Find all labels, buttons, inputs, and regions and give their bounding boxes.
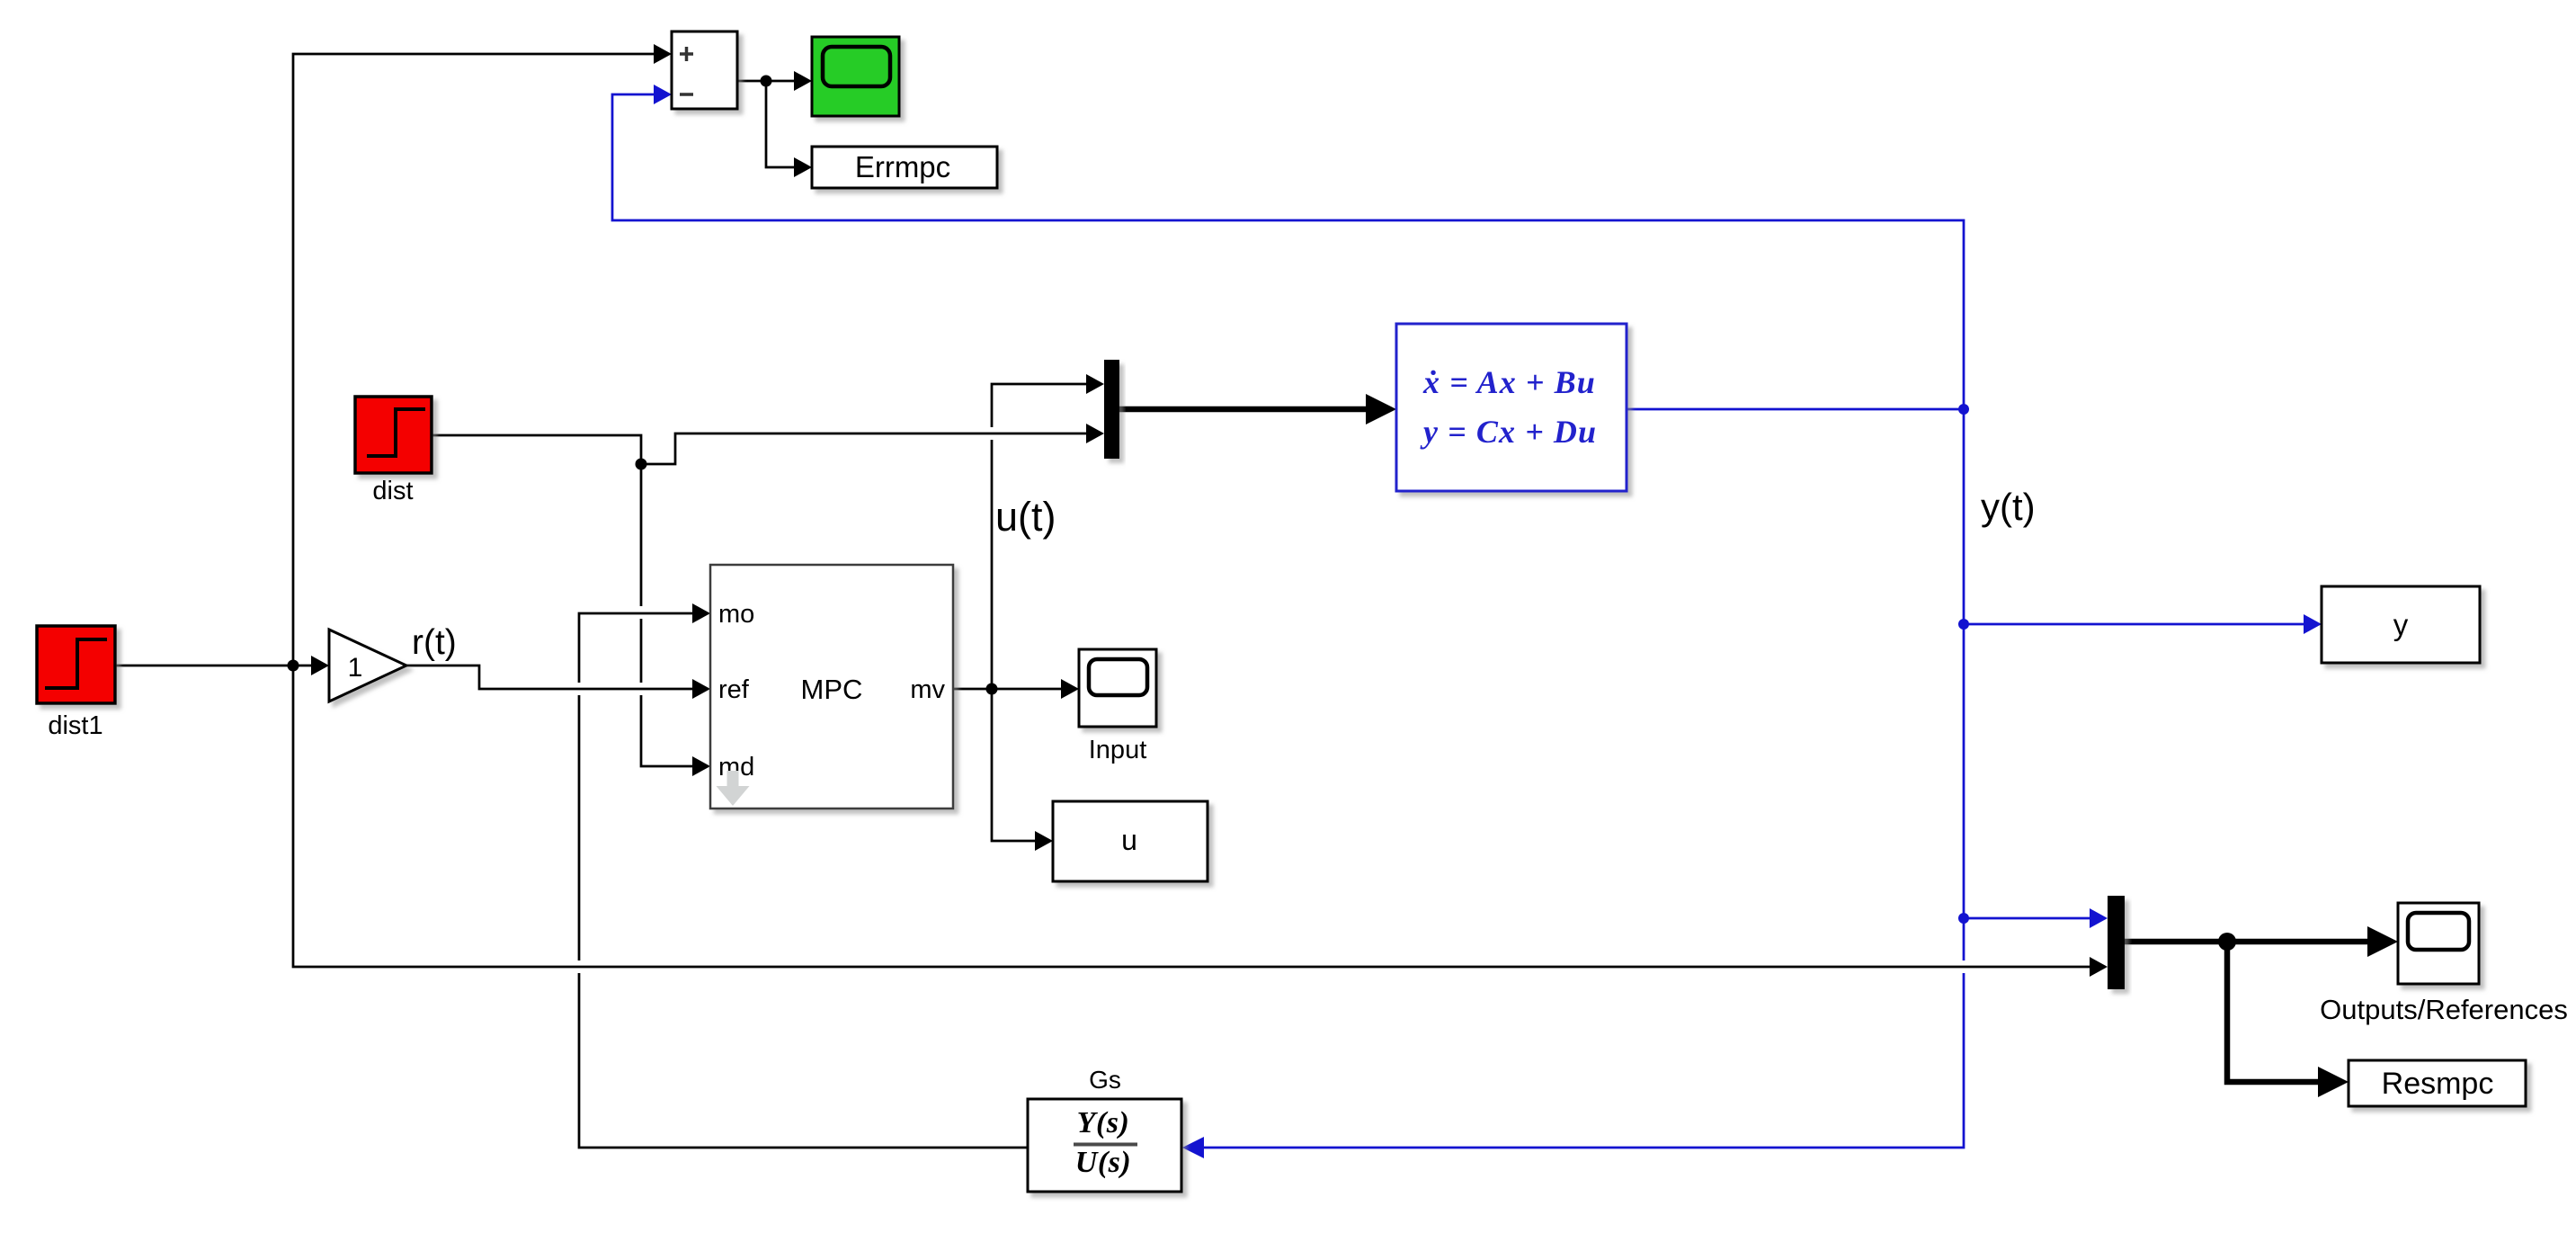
svg-text:y(t): y(t) [1981,486,2036,528]
svg-text:ẋ = Ax + Bu: ẋ = Ax + Bu [1422,364,1596,400]
svg-text:r(t): r(t) [412,623,457,662]
svg-text:Outputs/References: Outputs/References [2320,994,2568,1025]
svg-text:ref: ref [718,675,750,704]
svg-text:U(s): U(s) [1075,1146,1131,1179]
svg-text:mv: mv [910,675,945,704]
svg-text:MPC: MPC [801,674,863,705]
svg-text:u: u [1121,824,1137,856]
svg-text:Input: Input [1089,736,1147,764]
svg-text:y: y [2393,608,2409,641]
svg-text:mo: mo [718,600,754,629]
svg-text:u(t): u(t) [995,494,1056,540]
svg-text:dist1: dist1 [48,711,103,740]
svg-text:1: 1 [348,653,363,683]
svg-text:y = Cx + Du: y = Cx + Du [1420,414,1597,450]
svg-text:Y(s): Y(s) [1077,1106,1130,1139]
svg-text:Errmpc: Errmpc [855,150,950,183]
svg-text:dist: dist [372,477,413,505]
svg-text:Gs: Gs [1089,1066,1121,1094]
svg-text:Resmpc: Resmpc [2382,1067,2494,1101]
